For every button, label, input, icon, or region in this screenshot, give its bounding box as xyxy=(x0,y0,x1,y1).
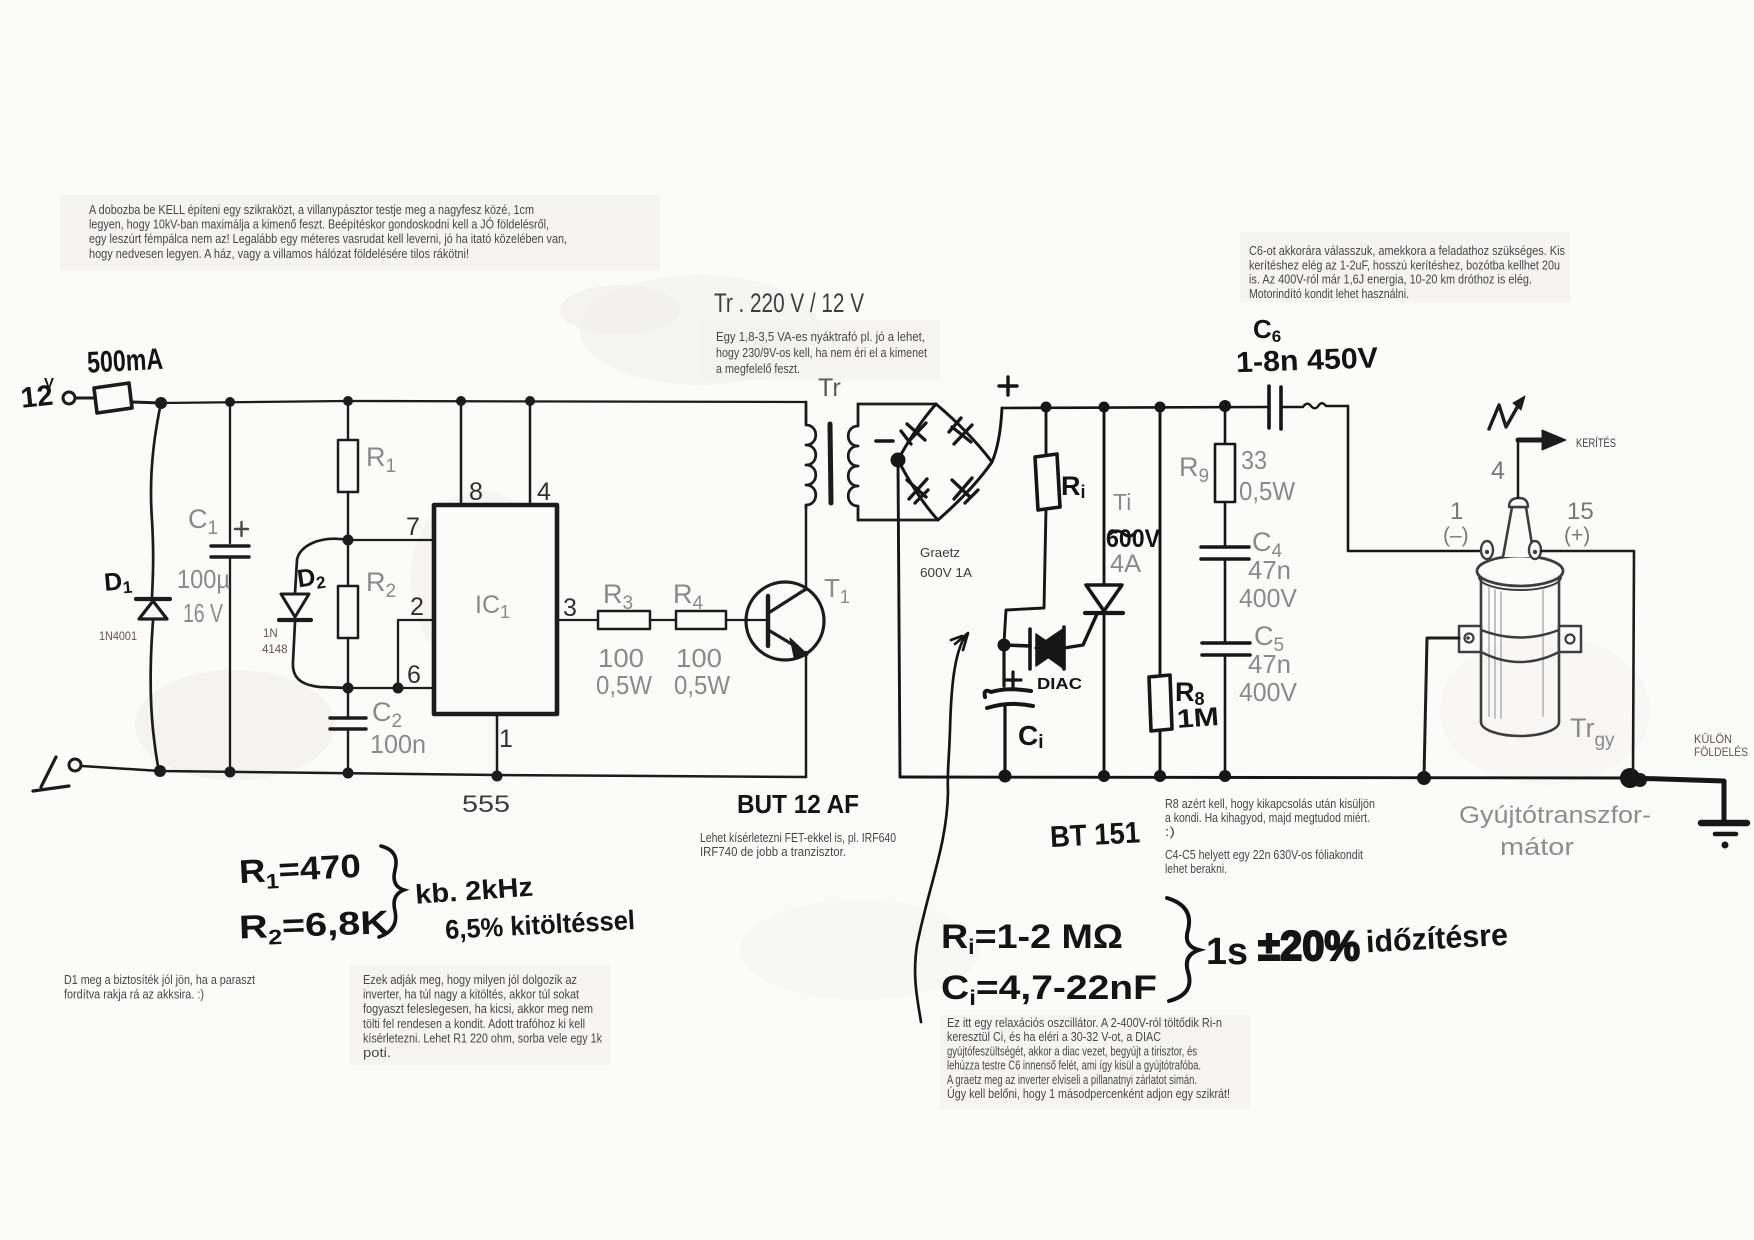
wire R4 to base xyxy=(726,619,769,621)
node R2 bottom junction xyxy=(343,683,354,694)
wire fuse to node A xyxy=(132,402,161,403)
thyristor Ti xyxy=(1103,407,1106,585)
wire down to coil terminal 1 xyxy=(1348,406,1483,551)
svg-text:R8 azért kell, hogy kikapcsolá: R8 azért kell, hogy kikapcsolás után kis… xyxy=(1165,797,1375,811)
svg-text:2: 2 xyxy=(410,593,424,621)
capacitor C1 xyxy=(229,402,231,543)
transformer core xyxy=(830,424,831,503)
svg-text:400V: 400V xyxy=(1239,677,1298,707)
svg-text:Graetz: Graetz xyxy=(920,546,960,560)
note: top-right C6 sizing paragraph xyxy=(1249,244,1565,301)
node Ti top xyxy=(1099,402,1110,413)
note: FET suggestion paragraph xyxy=(700,831,896,859)
coil bracket strap xyxy=(1481,630,1559,638)
capacitor C5 xyxy=(1202,641,1250,645)
capacitor C6 xyxy=(1267,386,1271,428)
svg-text:KERÍTÉS: KERÍTÉS xyxy=(1576,437,1616,450)
transistor T1 xyxy=(746,582,824,660)
svg-text:Tr . 220 V / 12 V: Tr . 220 V / 12 V xyxy=(714,288,864,318)
svg-text:a megfelelő feszt.: a megfelelő feszt. xyxy=(716,361,800,376)
svg-text:0,5W: 0,5W xyxy=(596,670,652,700)
svg-text:A graetz meg az inverter elvis: A graetz meg az inverter elviseli a pill… xyxy=(947,1072,1197,1087)
wire T1 collector xyxy=(805,508,808,590)
svg-text:BUT 12 AF: BUT 12 AF xyxy=(737,789,859,819)
brace R1 R2 xyxy=(379,846,404,937)
node bridge AC left xyxy=(891,453,906,468)
svg-text:C6-ot akkorára válasszuk, amek: C6-ot akkorára válasszuk, amekkora a fel… xyxy=(1249,244,1565,258)
label: Graetz 600V 1A xyxy=(920,546,973,580)
node A xyxy=(155,397,167,409)
node R1 top xyxy=(343,396,353,406)
resistor R9 xyxy=(1224,406,1227,444)
svg-text:1s: 1s xyxy=(1206,931,1248,973)
svg-text:0,5W: 0,5W xyxy=(674,670,730,700)
svg-text:mátor: mátor xyxy=(1500,834,1574,861)
wire pointer curve (annotation arrow to Ci node) xyxy=(915,635,966,1022)
node C1 top xyxy=(225,397,235,407)
svg-text:8: 8 xyxy=(469,478,483,506)
svg-text:keresztül Ci, és ha eléri a 30: keresztül Ci, és ha eléri a 30-32 V-ot, … xyxy=(947,1029,1161,1044)
svg-text:15: 15 xyxy=(1567,498,1594,525)
wire bridge minus down to 0V rail xyxy=(898,462,900,776)
node R9 top xyxy=(1219,400,1231,412)
svg-text:±20%: ±20% xyxy=(1258,922,1360,969)
wire pin 8 xyxy=(460,401,463,505)
svg-text:4: 4 xyxy=(537,478,551,506)
fuse F1 500mA xyxy=(94,383,132,413)
node Ci top junction xyxy=(998,639,1011,652)
svg-text:47n: 47n xyxy=(1248,555,1291,585)
bridge plus sign xyxy=(999,377,1017,395)
svg-text:(–): (–) xyxy=(1443,524,1469,547)
resistor Ri (hand drawn) xyxy=(1045,407,1048,455)
svg-text:1-8n 450V: 1-8n 450V xyxy=(1236,342,1380,379)
bridge diode (bottom-right) xyxy=(952,478,978,503)
svg-text:BT 151: BT 151 xyxy=(1049,816,1141,854)
capacitor C2 xyxy=(347,688,349,716)
svg-text:kerítéshez elég az 1-2uF, hoss: kerítéshez elég az 1-2uF, hosszú kerítés… xyxy=(1249,258,1560,272)
svg-text:poti.: poti. xyxy=(363,1046,391,1060)
node C2 bottom xyxy=(343,768,354,779)
svg-text:1N: 1N xyxy=(263,628,278,640)
svg-text:Ez itt egy relaxációs oszcillá: Ez itt egy relaxációs oszcillátor. A 2-4… xyxy=(947,1015,1222,1030)
Ci plus sign xyxy=(1005,672,1021,688)
svg-text:1: 1 xyxy=(1450,498,1463,525)
svg-text:legyen, hogy 10kV-ban maximálj: legyen, hogy 10kV-ban maximálja a kimenő… xyxy=(89,217,549,232)
svg-text:100µ: 100µ xyxy=(177,564,230,594)
svg-text:600V: 600V xyxy=(1106,525,1160,553)
node ground blob xyxy=(1620,768,1640,788)
node C1 bottom xyxy=(225,767,236,778)
svg-text:DIAC: DIAC xyxy=(1037,676,1082,693)
node pin7 / R1-R2 junction xyxy=(343,535,354,546)
wire D2 top curve xyxy=(295,539,348,593)
wire C6 to corner with squiggle xyxy=(1282,403,1348,408)
svg-text:7: 7 xyxy=(406,513,420,541)
svg-text:hogy 230/9V-os kell, ha nem ér: hogy 230/9V-os kell, ha nem éri el a kim… xyxy=(716,345,927,360)
svg-text:600V 1A: 600V 1A xyxy=(920,566,973,580)
svg-text:1N4001: 1N4001 xyxy=(99,631,137,643)
svg-text:Motorindító kondit lehet haszn: Motorindító kondit lehet használni. xyxy=(1249,287,1409,301)
node D1 bottom xyxy=(154,765,166,777)
svg-text:a kondi. Ha kihagyod, majd meg: a kondi. Ha kihagyod, majd megtudod miér… xyxy=(1165,811,1370,825)
bridge diode (bottom-left) xyxy=(907,479,928,503)
coil body cylinder xyxy=(1480,574,1483,722)
svg-text:inverter, ha túl nagy a kitölt: inverter, ha túl nagy a kitöltés, akkor … xyxy=(363,988,579,1002)
svg-text:16 V: 16 V xyxy=(183,598,223,628)
bridge diode (top-left) xyxy=(901,423,926,444)
svg-text:400V: 400V xyxy=(1239,583,1298,613)
terminal 0V xyxy=(69,759,81,771)
transformer Tr primary coil xyxy=(806,402,816,508)
wire top +12V rail xyxy=(161,401,806,403)
svg-text:1M: 1M xyxy=(1176,701,1220,734)
capacitor Ci (electrolytic, hand drawn) xyxy=(1002,645,1005,686)
wire secondary top to bridge xyxy=(858,403,936,406)
svg-text:fordítva rakja rá az akksira.: fordítva rakja rá az akksira. :) xyxy=(64,988,204,1002)
wire pin 7 xyxy=(348,539,434,541)
node Ti bottom xyxy=(1098,770,1110,782)
svg-text:555: 555 xyxy=(462,791,510,818)
svg-text:Lehet kísérletezni FET-ekkel i: Lehet kísérletezni FET-ekkel is, pl. IRF… xyxy=(700,831,896,845)
wire pin 3 xyxy=(557,619,598,621)
capacitor C4 xyxy=(1201,545,1249,549)
wire pins 2-6 link xyxy=(348,620,434,688)
node pin4 top xyxy=(525,396,535,406)
coil shading xyxy=(1489,588,1543,718)
svg-text:KÜLÖN: KÜLÖN xyxy=(1694,734,1732,746)
terminal +12V xyxy=(63,392,75,404)
node R8 top xyxy=(1155,402,1166,413)
spark lightning symbol xyxy=(1489,404,1519,429)
wire pin 1 xyxy=(496,714,499,775)
node R8 bottom xyxy=(1154,770,1166,782)
node Ri top xyxy=(1041,402,1052,413)
svg-text:lehet berakni.: lehet berakni. xyxy=(1165,862,1227,876)
resistor R4 xyxy=(676,611,726,629)
svg-text:Egy 1,8-3,5 VA-es nyáktrafó pl: Egy 1,8-3,5 VA-es nyáktrafó pl. jó a leh… xyxy=(716,329,925,344)
bridge minus sign xyxy=(876,439,893,443)
note: top-left construction/grounding paragraph xyxy=(89,203,567,261)
node pin8 top xyxy=(456,396,466,406)
transformer Tr secondary coil xyxy=(848,404,858,520)
wire coil terminal 15 to ground rail xyxy=(1541,551,1634,777)
wire HT terminal 4 up xyxy=(1517,440,1520,498)
coil HT tower xyxy=(1503,507,1534,557)
resistor R2 xyxy=(347,540,349,586)
svg-text:is. Az 400V-ról már 1,6J energ: is. Az 400V-ról már 1,6J energia, 10-20 … xyxy=(1249,273,1532,287)
wire fence arrow KERITES xyxy=(1518,438,1544,443)
wire diac to thyristor gate xyxy=(1064,614,1097,648)
svg-text:3: 3 xyxy=(563,594,577,622)
bridge diode (top-right) xyxy=(949,418,972,444)
svg-text:D1 meg a biztosíték jól jön, h: D1 meg a biztosíték jól jön, ha a parasz… xyxy=(64,973,255,987)
wire D1 branch (wavy) lower xyxy=(151,621,159,771)
svg-text:100: 100 xyxy=(676,643,722,673)
svg-text:4148: 4148 xyxy=(262,644,288,656)
wire bottom 0V rail left xyxy=(82,766,806,777)
svg-text:33: 33 xyxy=(1241,445,1267,475)
svg-text:tölti fel rendesen a kondit. A: tölti fel rendesen a kondit. Adott trafó… xyxy=(363,1017,585,1031)
svg-text:IRF740 de jobb a tranzisztor.: IRF740 de jobb a tranzisztor. xyxy=(700,845,846,859)
wire D1 branch (wavy) upper xyxy=(151,403,161,597)
node Ci bottom xyxy=(999,770,1012,783)
svg-text:47n: 47n xyxy=(1248,649,1291,679)
wire terminal to fuse xyxy=(76,397,94,400)
svg-text:500mA: 500mA xyxy=(86,343,164,380)
svg-text:C4-C5 helyett egy 22n 630V-os: C4-C5 helyett egy 22n 630V-os fóliakondi… xyxy=(1165,848,1363,862)
svg-text:100: 100 xyxy=(598,643,644,673)
wire HV top rail xyxy=(1002,407,1268,408)
resistor R3 xyxy=(598,611,650,629)
svg-text:1: 1 xyxy=(499,725,513,753)
note: transformer suggestion paragraph xyxy=(716,329,927,376)
svg-text:(+): (+) xyxy=(1564,524,1590,547)
wire bridge plus to HV rail xyxy=(992,408,1002,462)
wire secondary bottom to bridge xyxy=(858,519,938,522)
resistor R1 xyxy=(347,401,349,440)
note: R8 purpose paragraph xyxy=(1165,797,1375,876)
coil top cap xyxy=(1477,556,1563,586)
svg-text:Gyújtótranszfor-: Gyújtótranszfor- xyxy=(1459,802,1651,829)
wire R3-R4 xyxy=(650,619,676,621)
node coil bracket bottom xyxy=(1417,771,1431,785)
bridge outline xyxy=(898,404,992,520)
node C5 bottom xyxy=(1219,770,1231,782)
svg-text:6: 6 xyxy=(407,661,421,689)
svg-text:4A: 4A xyxy=(1110,550,1141,578)
node pin6 junction xyxy=(393,683,404,694)
svg-text:kísérletezni. Lehet R1 220 ohm: kísérletezni. Lehet R1 220 ohm, sorba ve… xyxy=(363,1031,603,1045)
svg-text:Ti: Ti xyxy=(1113,489,1131,515)
wire D2 bottom curve xyxy=(293,622,348,688)
wire pin 4 xyxy=(529,401,532,505)
svg-text:lehúzza testre C6 innenső felé: lehúzza testre C6 innenső felét, ami így… xyxy=(947,1058,1201,1073)
svg-text:időzítésre: időzítésre xyxy=(1365,917,1509,959)
brace Ri Ci xyxy=(1167,898,1199,1001)
coil mounting bracket right ear xyxy=(1559,626,1581,652)
coil terminal 1 xyxy=(1481,541,1493,559)
svg-text:A dobozba be KELL építeni egy: A dobozba be KELL építeni egy szikraközt… xyxy=(89,203,534,217)
svg-text:V: V xyxy=(44,375,54,392)
wire to separate earth xyxy=(1630,778,1724,820)
svg-text:fogyaszt feleslegesen, ha kics: fogyaszt feleslegesen, ha kicsi, akkor m… xyxy=(363,1002,593,1016)
svg-text:egy leszúrt fémpálca nem az! L: egy leszúrt fémpálca nem az! Legalább eg… xyxy=(89,232,567,246)
svg-text:Ezek adják meg, hogy milyen jó: Ezek adják meg, hogy milyen jól dolgozik… xyxy=(363,973,577,987)
diac xyxy=(1028,629,1032,669)
diode D1 xyxy=(136,597,170,601)
coil mounting bracket left ear xyxy=(1459,626,1481,652)
svg-text:Tr: Tr xyxy=(818,374,841,402)
node pin1 bottom xyxy=(492,771,503,782)
ground mark hand minus xyxy=(33,757,69,791)
svg-text:0,5W: 0,5W xyxy=(1239,476,1295,506)
resistor R8 (hand drawn) xyxy=(1159,407,1162,675)
svg-text:100n: 100n xyxy=(370,729,426,759)
svg-text:Úgy kell belőni, hogy 1 másodp: Úgy kell belőni, hogy 1 másodpercenként … xyxy=(947,1086,1230,1101)
svg-text::): :) xyxy=(1165,825,1175,839)
note: duty-cycle explanation paragraph xyxy=(363,973,603,1060)
svg-text:4: 4 xyxy=(1491,457,1505,485)
coil terminal 15 xyxy=(1529,541,1541,559)
ground (earth electrode) xyxy=(1701,820,1747,827)
note: relaxation oscillator paragraph xyxy=(947,1015,1230,1101)
note: D1 fuse joke paragraph xyxy=(64,973,255,1002)
op IC1 555 timer box xyxy=(434,505,557,714)
wire T1 emitter xyxy=(805,652,808,777)
wire bottom 0V rail right xyxy=(900,777,1630,778)
svg-text:gyújtófeszültségét, akkor a di: gyújtófeszültségét, akkor a diac vezet, … xyxy=(947,1043,1197,1058)
svg-text:FÖLDELÉS: FÖLDELÉS xyxy=(1694,746,1748,759)
wire node to diac xyxy=(1004,645,1030,646)
svg-text:hogy nedvesen legyen. A ház, v: hogy nedvesen legyen. A ház, vagy a vill… xyxy=(89,247,469,261)
wire coil bracket to ground rail xyxy=(1424,638,1459,777)
diode D2 1N4148 xyxy=(281,594,309,617)
